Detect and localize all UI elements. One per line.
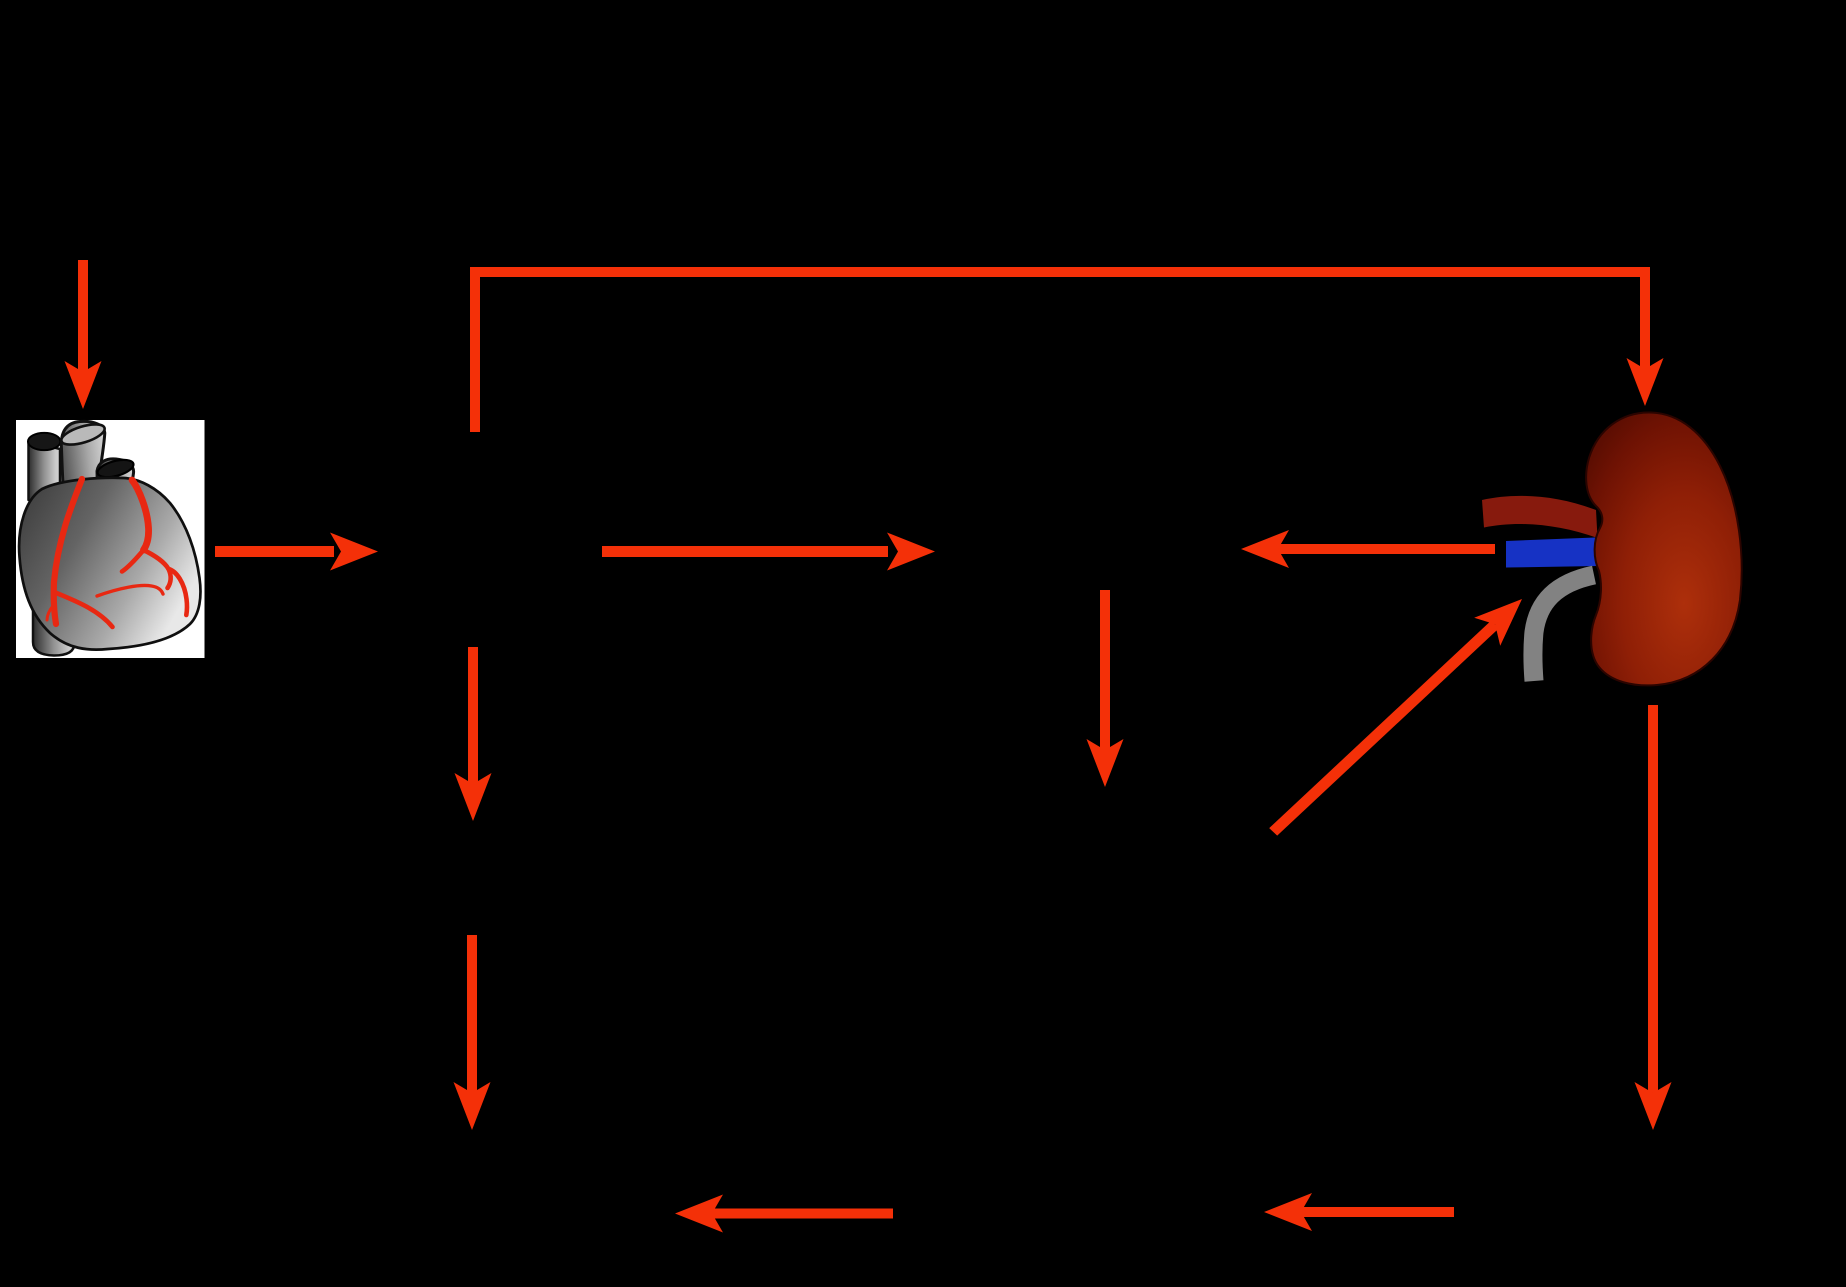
arrow A12: excretion to blood volume (points left): [1264, 1193, 1454, 1231]
svg-text:Decreased angiotensin II: Decreased angiotensin II: [939, 834, 1271, 867]
heart icon: [19, 420, 200, 655]
aorta: [59, 420, 107, 497]
heart body: [19, 478, 200, 650]
arrow A7: ANP down to vasodilation: [455, 647, 492, 821]
renal vein: [1506, 538, 1599, 568]
renal artery: [1482, 496, 1598, 538]
arrow A8: angiotensin diagonally up to kidney: [1269, 599, 1522, 836]
vena cava upper segment: [28, 433, 60, 505]
coronary arteries: [47, 479, 187, 627]
arrow A5: kidney to renin (points left): [1241, 530, 1495, 568]
svg-text:Decreased renin: Decreased renin: [980, 534, 1200, 567]
svg-text:Increased Na and water excreti: Increased Na and water excretion: [1429, 1164, 1846, 1197]
kidney body: [1586, 412, 1742, 685]
arrow A2: feedback line down into kidney: [1627, 267, 1664, 406]
white panel behind heart: [16, 420, 205, 658]
svg-text:ANP: ANP: [457, 531, 523, 567]
svg-text:Decreased blood volume: Decreased blood volume: [914, 1196, 1246, 1229]
vena cava lower segment: [33, 600, 75, 656]
svg-text:Vasodilation: Vasodilation: [392, 854, 553, 887]
arrow A10: kidney down to excretion: [1635, 705, 1672, 1130]
arrow A1: blood volume down to heart: [65, 260, 102, 409]
arrow A11: blood volume to blood pressure (points left): [675, 1195, 893, 1233]
arrow A6: renin down to angiotensin: [1087, 590, 1124, 787]
svg-text:Increased blood volume: Increased blood volume: [0, 174, 242, 207]
svg-text:Decreased blood pressure: Decreased blood pressure: [297, 1164, 649, 1197]
kidney icon: [1482, 412, 1742, 685]
arrow A9: vasodilation down to blood pressure: [454, 935, 491, 1130]
arrow A3: heart to ANP: [215, 533, 378, 571]
ureter: [1533, 575, 1594, 681]
pulmonary artery: [96, 457, 136, 507]
arrow A4: ANP to renin: [602, 533, 935, 571]
feedback wire: ANP up and across to kidney: [470, 267, 1650, 432]
